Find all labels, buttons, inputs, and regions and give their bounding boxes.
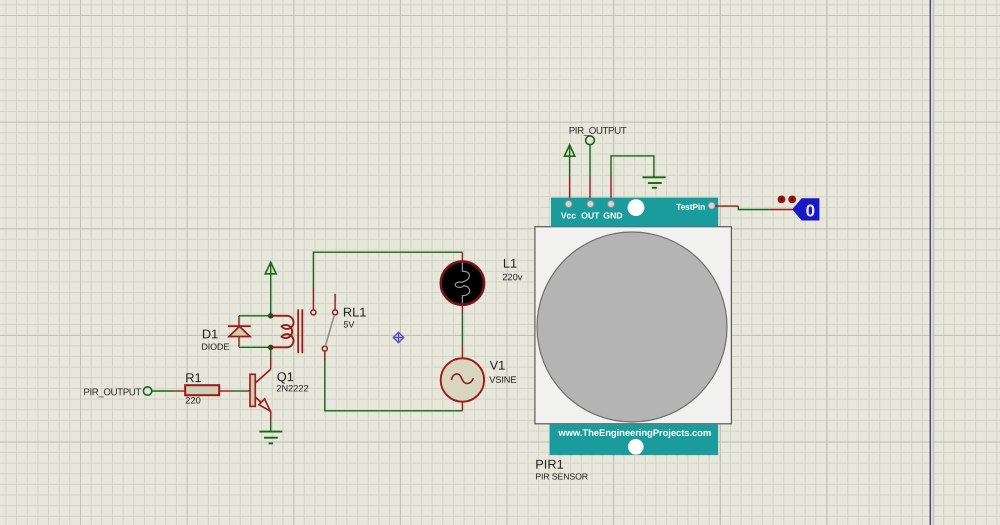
probe indicator dot 2 (788, 196, 796, 204)
sheet border (blue) (930, 0, 933, 525)
diode D1 (201, 316, 270, 352)
power symbol (left) (265, 262, 276, 316)
PIR1 dome lens (537, 232, 727, 422)
pin Vcc (565, 201, 572, 208)
pin stub logic probe (770, 209, 793, 211)
PIR1 footer mounting hole (628, 439, 644, 455)
wire bottom rail (contact to V1) (325, 360, 463, 411)
PIR1 sensor body (535, 227, 732, 424)
terminal PIR_OUTPUT (OUT) (586, 136, 595, 145)
pin GND (608, 201, 615, 208)
wire OUT pin (589, 145, 591, 177)
svg-text:0: 0 (806, 201, 815, 220)
resistor R1 (175, 370, 234, 405)
pin stub bottom contact (324, 351, 326, 360)
wire top rail (contact to lamp) (313, 252, 462, 288)
node junction top (coil/D1/power) (268, 313, 273, 318)
pin OUT (587, 201, 594, 208)
PIR1 header bar (551, 198, 718, 227)
pin stub right contact (334, 294, 336, 310)
svg-text:RL1: RL1 (343, 304, 366, 319)
PIR1 header mounting hole (628, 199, 645, 216)
wire terminal to R1 (152, 390, 174, 392)
pin stub Vcc (569, 177, 571, 199)
wire lamp to V1 (461, 315, 463, 345)
source V1 VSINE (441, 345, 517, 411)
node junction bottom (coil/D1/collector) (268, 345, 273, 350)
wire TestPin to probe (715, 205, 738, 207)
svg-text:220: 220 (185, 395, 201, 405)
power symbol Vcc (564, 145, 574, 177)
terminal PIR_OUTPUT (left) (143, 387, 151, 395)
wire Q1 collector to relay (270, 347, 272, 356)
pin stub GND (610, 177, 612, 199)
svg-text:OUT: OUT (581, 211, 600, 221)
PIR1 footer bar (550, 424, 719, 455)
svg-text:D1: D1 (202, 326, 218, 341)
pin stub OUT (589, 177, 591, 199)
svg-text:220v: 220v (502, 272, 523, 282)
svg-text:V1: V1 (490, 358, 506, 373)
relay RL1 core bars (298, 309, 302, 353)
svg-text:PIR SENSOR: PIR SENSOR (535, 471, 588, 481)
svg-text:Q1: Q1 (277, 369, 294, 384)
wire GND net (611, 156, 654, 177)
relay RL1 switch lever (325, 315, 334, 346)
relay RL1 switch contacts (311, 310, 338, 351)
svg-text:L1: L1 (503, 256, 517, 271)
origin marker (393, 332, 404, 343)
wire R1 to Q1 base (234, 390, 246, 392)
svg-text:www.TheEngineeringProjects.com: www.TheEngineeringProjects.com (557, 428, 711, 439)
svg-text:PIR1: PIR1 (535, 457, 563, 472)
lamp L1 (441, 252, 523, 315)
svg-text:TestPin: TestPin (676, 202, 705, 212)
relay RL1 coil (271, 316, 294, 348)
pin stub left contact (312, 288, 314, 310)
wire Q1 emitter to ground (270, 421, 272, 432)
pin TestPin (708, 202, 715, 209)
transistor Q1 (246, 356, 309, 421)
svg-text:R1: R1 (185, 370, 201, 385)
svg-text:VSINE: VSINE (489, 375, 516, 385)
svg-text:5V: 5V (343, 319, 354, 329)
svg-text:2N2222: 2N2222 (276, 383, 308, 393)
svg-text:GND: GND (603, 211, 622, 221)
ground (below Q1) (259, 432, 282, 444)
svg-text:PIR_OUTPUT: PIR_OUTPUT (83, 387, 141, 398)
svg-text:DIODE: DIODE (201, 342, 229, 352)
ground (PIR) (642, 177, 665, 188)
probe indicator dot 1 (778, 196, 786, 204)
wire jog to logic probe (738, 206, 769, 209)
svg-text:PIR_OUTPUT: PIR_OUTPUT (569, 126, 627, 137)
logic state tag (792, 198, 819, 220)
svg-text:Vcc: Vcc (561, 210, 577, 220)
